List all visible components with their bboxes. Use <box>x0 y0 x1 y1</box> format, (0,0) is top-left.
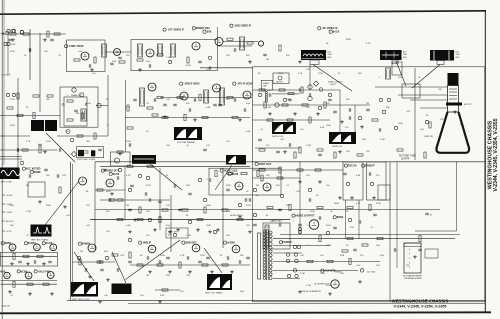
box focus control B6 <box>343 162 363 200</box>
svg-text:SPARK: SPARK <box>263 82 270 85</box>
svg-text:18K: 18K <box>86 141 90 143</box>
box discriminator <box>166 228 188 238</box>
wire mid divider B <box>100 165 250 167</box>
label 4.5MC TRAP <box>64 45 83 49</box>
ground symbol G46 <box>148 270 152 274</box>
wire vert tuner <box>29 29 31 80</box>
resistor R245 <box>419 236 421 242</box>
capacitor C281 <box>100 269 104 271</box>
svg-text:10K: 10K <box>44 51 48 53</box>
svg-text:150K: 150K <box>398 123 403 125</box>
leader vert lin <box>112 252 126 283</box>
junction point J4 <box>4 42 7 45</box>
capacitor C206 <box>149 64 151 68</box>
wire vert afc2 <box>354 105 356 132</box>
svg-text:WIDTH COIL: WIDTH COIL <box>272 136 285 138</box>
svg-text:47pf: 47pf <box>380 255 384 257</box>
ground symbol G2 <box>43 38 47 42</box>
capacitor C236 <box>159 260 161 264</box>
svg-text:100: 100 <box>92 73 96 75</box>
tube V215 6AX4GTA <box>331 280 339 288</box>
svg-text:~ 4: ~ 4 <box>407 263 411 265</box>
label SND DET <box>182 241 197 245</box>
svg-text:HORIZ OUTPUT: HORIZ OUTPUT <box>296 215 315 218</box>
junction point J43 <box>348 218 351 221</box>
svg-text:.01: .01 <box>260 129 264 131</box>
sound takeoff coil A <box>78 150 84 156</box>
wire rf chain <box>223 41 258 43</box>
resistor R308 <box>334 152 336 158</box>
svg-text:4.7K: 4.7K <box>26 141 31 143</box>
svg-text:1M: 1M <box>366 103 369 105</box>
junction point J28 <box>298 227 301 230</box>
resistor R225 <box>127 165 133 167</box>
junction point J14 <box>293 269 296 272</box>
resistor R259 <box>47 95 53 97</box>
svg-text:.01: .01 <box>10 295 14 297</box>
wire focus drop 2 <box>358 200 360 239</box>
resistor R254 <box>299 147 301 153</box>
tube V216 6BN4 <box>9 244 16 251</box>
resistor R258 <box>33 95 39 97</box>
svg-text:.022: .022 <box>62 175 67 177</box>
svg-text:.01: .01 <box>26 235 30 237</box>
tube V201 5U8 <box>81 52 89 60</box>
svg-text:6CB4A: 6CB4A <box>28 242 36 245</box>
capacitor C244 <box>269 93 271 97</box>
junction point J36 <box>358 116 361 119</box>
CRT V-21 picture tube 21ATP4 <box>436 73 469 153</box>
ground symbol G58 <box>338 196 342 200</box>
resistor R218 <box>33 113 35 119</box>
svg-text:100: 100 <box>140 295 144 297</box>
svg-text:.047: .047 <box>86 225 91 227</box>
label AGC KEYED <box>22 167 40 171</box>
wire audio row <box>130 264 250 266</box>
wire left bus 2 <box>3 0 5 165</box>
svg-text:V-2344, V-2345, V-2354, V-2355: V-2344, V-2345, V-2354, V-2355 <box>493 118 499 191</box>
resistor R234 <box>197 218 203 220</box>
top border rule <box>0 11 486 14</box>
svg-text:1K: 1K <box>330 211 333 213</box>
svg-text:1M: 1M <box>256 185 259 187</box>
resistor R278 <box>204 207 206 213</box>
junction point J6 <box>168 60 171 63</box>
svg-text:100: 100 <box>300 129 304 131</box>
tube V223 6T8 <box>148 245 156 253</box>
wire crt grid 3 <box>410 99 447 101</box>
label supply +13V <box>2 231 12 233</box>
wire right shelf <box>415 230 457 232</box>
capacitor C276 <box>187 256 189 260</box>
wire vert divider left <box>70 162 72 300</box>
svg-text:TERMINAL BOARD: TERMINAL BOARD <box>404 277 422 280</box>
ground symbol G54 <box>26 262 30 266</box>
sound takeoff coil B <box>91 150 95 156</box>
resistor R284 <box>261 175 263 181</box>
svg-text:1K: 1K <box>24 55 27 57</box>
wire video row <box>160 97 252 99</box>
junction point J16 <box>295 274 298 277</box>
capacitor C245 <box>288 99 292 101</box>
capacitor C286 <box>57 174 59 178</box>
ringing coil <box>226 155 246 165</box>
wire sound row 3 <box>1 283 58 285</box>
box freq adj <box>263 223 290 249</box>
capacitor C285 <box>44 169 48 171</box>
tube V213 6BH8 <box>263 183 271 191</box>
svg-text:6AW8: 6AW8 <box>34 171 41 174</box>
resistor R300 <box>342 250 348 252</box>
IF transformer T208 <box>139 88 144 106</box>
wire sound row 2 <box>1 280 58 282</box>
svg-text:12K: 12K <box>440 119 444 121</box>
svg-text:470K: 470K <box>310 211 315 213</box>
tube V205 6AW8 <box>258 41 263 46</box>
wire vert divider left2 <box>72 164 74 297</box>
svg-text:2.2M: 2.2M <box>26 211 31 213</box>
svg-text:TO TUNER: TO TUNER <box>1 75 11 77</box>
resistor R303 <box>7 107 13 109</box>
capacitor C212 <box>349 108 351 112</box>
capacitor C234 <box>99 260 101 264</box>
capacitor C222 <box>289 143 291 147</box>
box sound det board B8 <box>1 253 58 267</box>
svg-text:.047: .047 <box>280 139 285 141</box>
svg-text:GAP: GAP <box>263 85 268 88</box>
label 6CU6 <box>109 172 120 176</box>
capacitor C211 <box>328 99 332 101</box>
capacitor C258 <box>117 176 119 180</box>
capacitor C288 <box>369 172 371 176</box>
wire sync right <box>96 105 108 107</box>
tube V204 6AC9 <box>215 38 223 46</box>
svg-text:39K: 39K <box>276 185 280 187</box>
svg-text:2.2M: 2.2M <box>300 273 305 275</box>
wire vert mid <box>94 162 96 250</box>
svg-text:10K: 10K <box>166 145 170 147</box>
svg-text:220: 220 <box>345 127 349 129</box>
resistor R205 <box>74 59 80 61</box>
svg-text:L-205 4.5MC SOUND: L-205 4.5MC SOUND <box>77 159 96 161</box>
ground symbol G5 <box>208 66 212 70</box>
resistor R273 <box>97 189 103 191</box>
capacitor C257 <box>103 169 107 171</box>
label 6AX4GTA <box>321 269 336 273</box>
resistor R201 <box>10 33 16 35</box>
resistor R306 <box>82 151 88 153</box>
resistor R238 <box>37 255 43 257</box>
IF transformer T2A <box>170 44 175 57</box>
label RF VIDEO IF <box>318 27 338 31</box>
resistor R249 <box>162 289 168 291</box>
svg-text:2.2M: 2.2M <box>380 139 385 141</box>
label 1ST VIDEO IF <box>163 28 185 32</box>
svg-text:39K: 39K <box>166 275 170 277</box>
resistor R235 <box>237 218 243 220</box>
wire if tubes row <box>125 117 250 119</box>
capacitor C241 <box>418 249 422 251</box>
capacitor C284 <box>29 174 31 178</box>
tube V208 6CB6 <box>213 84 221 92</box>
capacitor C246 <box>309 93 311 97</box>
ground symbol G43 <box>196 228 200 232</box>
resistor R281 <box>279 167 281 173</box>
wire vert b1 <box>39 33 41 112</box>
svg-text:6.8K: 6.8K <box>112 61 117 63</box>
svg-text:FUSIBLE: FUSIBLE <box>334 272 343 274</box>
label 6AW8 <box>30 170 41 174</box>
resistor R277 <box>182 209 188 211</box>
junction point J46 <box>213 230 216 233</box>
filter choke A <box>31 120 44 131</box>
resistor R115 <box>67 100 73 102</box>
capacitor C252 <box>154 98 156 102</box>
junction point J44 <box>128 238 131 241</box>
vert output transformer <box>207 274 232 290</box>
resistor R215 <box>199 95 201 101</box>
resistor R213 <box>157 96 163 98</box>
svg-text:150K: 150K <box>286 99 291 101</box>
resistor R270 <box>202 116 208 118</box>
svg-text:RED: RED <box>328 57 332 59</box>
svg-text:270K: 270K <box>376 203 381 205</box>
label VERT OUT <box>255 162 272 166</box>
resistor R209 <box>187 57 189 63</box>
ground symbol G34 <box>316 112 320 116</box>
svg-text:10K: 10K <box>376 245 380 247</box>
svg-text:100: 100 <box>106 231 110 233</box>
capacitor C215 <box>218 104 222 106</box>
capacitor C273 <box>373 214 377 216</box>
junction point J23 <box>394 126 397 129</box>
resistor R310 <box>288 92 294 94</box>
resistor R265 <box>279 89 285 91</box>
resistor R203 <box>47 31 49 37</box>
junction point J33 <box>283 98 286 101</box>
ground symbol G38 <box>318 180 322 184</box>
junction point J11 <box>294 253 297 256</box>
capacitor C237 <box>198 261 202 263</box>
label yoke leads Y1 <box>326 52 333 59</box>
capacitor C262 <box>174 184 176 188</box>
wire 6aw8 row <box>73 261 116 263</box>
capacitor C221 <box>258 139 262 141</box>
width coil <box>272 122 296 134</box>
tube V221 6AL5 <box>47 272 54 279</box>
ground symbol G1 <box>11 38 15 42</box>
leader yoke vert <box>396 61 406 86</box>
svg-text:AUDIO: AUDIO <box>227 242 235 245</box>
label 6U8 <box>0 270 6 274</box>
junction point J12 <box>286 259 289 262</box>
svg-text:~ 2: ~ 2 <box>407 254 411 256</box>
box HV filter <box>392 62 402 75</box>
resistor R260 <box>264 102 266 108</box>
resistor R298 <box>112 254 118 256</box>
wire crt grid 1 <box>375 86 447 88</box>
resistor R257 <box>429 122 431 128</box>
capacitor C204 <box>89 64 91 68</box>
tube sync clipper <box>114 158 119 163</box>
svg-text:BRIGHT: BRIGHT <box>365 165 375 168</box>
label supply +135V <box>2 195 13 197</box>
diamond sound takeoff <box>71 151 76 157</box>
wire heater 3 <box>273 252 302 254</box>
resistor R293 <box>179 262 181 268</box>
ground symbol G9 <box>193 118 197 122</box>
junction sync a <box>62 104 64 106</box>
svg-text:330: 330 <box>460 124 464 126</box>
box brightness control B7 <box>367 162 387 200</box>
wire horiz osc row 2 <box>100 199 170 201</box>
svg-text:.001: .001 <box>66 215 71 217</box>
junction point J34 <box>318 106 321 109</box>
ground symbol G36 <box>360 125 364 129</box>
label 6AL5 F68 <box>34 270 50 274</box>
svg-text:4.7K: 4.7K <box>366 43 371 45</box>
svg-text:47pf: 47pf <box>240 291 244 293</box>
capacitor C272 <box>359 220 361 224</box>
label 4TH IF 6CB6 <box>233 82 253 86</box>
wire IF link 2 <box>218 45 253 47</box>
svg-text:10K: 10K <box>10 225 14 227</box>
svg-text:SND DET: SND DET <box>186 242 197 245</box>
resistor R301 <box>362 244 368 246</box>
svg-text:HORIZ LIN: HORIZ LIN <box>332 146 342 148</box>
svg-text:.022: .022 <box>186 275 191 277</box>
capacitor C121 <box>110 63 114 65</box>
ground symbol G29 <box>98 300 102 304</box>
wire g to divider <box>255 147 300 149</box>
tube V212 6AU8 <box>235 182 243 190</box>
svg-text:82: 82 <box>338 73 341 75</box>
resistor R253 <box>152 114 158 116</box>
ground symbol G24 <box>358 280 362 284</box>
circle conv 1 <box>11 29 15 33</box>
resistor R248 <box>349 258 351 264</box>
svg-text:.001: .001 <box>420 129 425 131</box>
box sync clipper <box>111 152 131 166</box>
svg-text:.001: .001 <box>226 235 231 237</box>
capacitor C130 <box>425 213 429 215</box>
capacitor C225 <box>128 209 132 211</box>
junction point J30 <box>6 93 9 96</box>
label supply +260V <box>2 204 13 206</box>
svg-text:PICTURE TUBE: PICTURE TUBE <box>399 156 416 158</box>
svg-text:100: 100 <box>226 141 230 143</box>
svg-text:4.5MC TRAP: 4.5MC TRAP <box>69 45 84 48</box>
svg-text:150K: 150K <box>206 225 211 227</box>
capacitor C253 <box>173 104 177 106</box>
svg-text:RED: RED <box>403 57 407 59</box>
svg-text:+260V: +260V <box>6 204 13 206</box>
svg-text:4.7K: 4.7K <box>180 255 185 257</box>
capacitor C280 <box>85 268 87 272</box>
junction point J41 <box>280 194 283 197</box>
svg-text:470K: 470K <box>226 185 231 187</box>
resistor R294 <box>202 264 208 266</box>
wire crt grid 2 <box>398 94 447 96</box>
capacitor C223 <box>318 154 322 156</box>
svg-text:270K: 270K <box>46 141 51 143</box>
svg-text:12K: 12K <box>226 55 230 57</box>
resistor R252 <box>127 127 133 129</box>
junction point J49 <box>138 174 141 177</box>
junction point J26 <box>370 182 373 185</box>
capacitor C203 <box>50 39 54 41</box>
capacitor C270 <box>319 216 321 220</box>
tube pilot sync <box>66 130 70 134</box>
svg-text:68: 68 <box>326 43 329 45</box>
svg-text:.047: .047 <box>166 99 171 101</box>
svg-text:.001: .001 <box>306 107 311 109</box>
leader yoke plug <box>412 65 440 89</box>
wire vert if left <box>125 80 127 152</box>
svg-text:150K: 150K <box>326 125 331 127</box>
svg-text:SND IF: SND IF <box>143 242 152 245</box>
junction point J7 <box>208 56 211 59</box>
svg-text:220: 220 <box>146 235 150 237</box>
junction vo2 <box>308 96 312 100</box>
capacitor C216 <box>244 108 246 112</box>
resistor R268 <box>162 116 168 118</box>
svg-text:39K: 39K <box>46 175 50 177</box>
leader width coil <box>126 240 181 280</box>
ground symbol G53 <box>10 262 14 266</box>
svg-text:4.7K: 4.7K <box>298 73 303 75</box>
svg-text:470K: 470K <box>126 141 131 143</box>
svg-text:39K: 39K <box>146 211 150 213</box>
wire top of deflection box ext <box>200 67 253 69</box>
horiz deflection coil <box>0 168 20 180</box>
ground symbol G11 <box>43 150 47 154</box>
resistor R290 <box>369 205 371 211</box>
resistor R246 <box>307 260 313 262</box>
resistor R231 <box>117 218 123 220</box>
svg-text:.01: .01 <box>58 55 62 57</box>
resistor R229 <box>241 172 247 174</box>
label yoke leads Y3 <box>454 52 461 59</box>
tube V209 6AW8A <box>243 91 251 99</box>
ground symbol G42 <box>176 228 180 232</box>
capacitor C219 <box>98 149 102 151</box>
resistor R305 <box>39 147 41 153</box>
resistor R266 <box>301 87 303 93</box>
resistor R221 <box>94 133 96 139</box>
svg-text:6.8K: 6.8K <box>160 295 165 297</box>
ground symbol G57 <box>372 196 376 200</box>
terminal board IF subpanel <box>404 243 438 273</box>
svg-text:39K: 39K <box>286 55 290 57</box>
label 2ND VIDEO IF <box>230 24 252 28</box>
wire sound board row 1 <box>1 255 58 257</box>
ground symbol G7 <box>298 60 302 64</box>
resistor R310 <box>397 149 403 151</box>
test point sync <box>97 103 101 107</box>
resistor R287 <box>289 205 291 211</box>
capacitor C202 <box>29 48 31 52</box>
capacitor C282 <box>117 268 119 272</box>
svg-text:68: 68 <box>426 115 429 117</box>
svg-text:.1: .1 <box>378 77 381 79</box>
capacitor C205 <box>118 57 122 59</box>
svg-text:.01: .01 <box>186 145 190 147</box>
capacitor C278 <box>227 256 229 260</box>
svg-text:VERT BLK TRANS: VERT BLK TRANS <box>31 239 49 242</box>
ground symbol G19 <box>168 230 172 234</box>
svg-text:4.7K: 4.7K <box>226 211 231 213</box>
